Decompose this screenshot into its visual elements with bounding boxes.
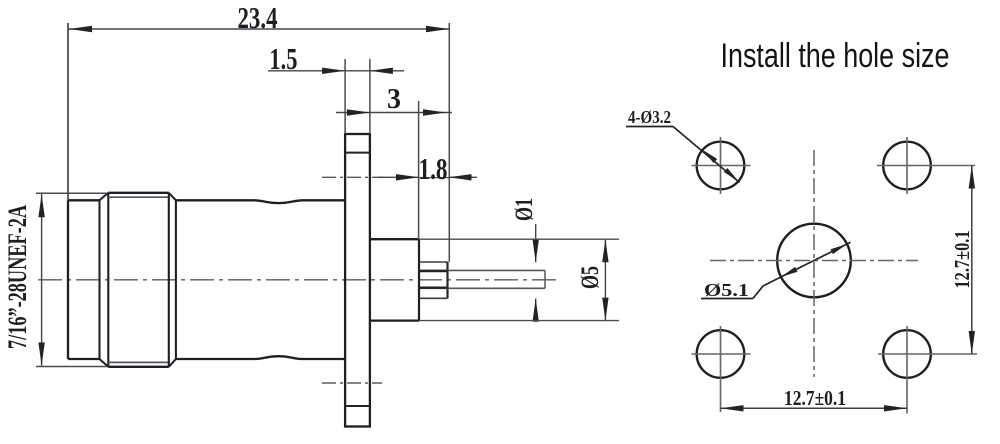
dimension 1.5 [268, 41, 404, 134]
center hole vertical centerline [813, 150, 815, 377]
svg-text:12.7±0.1: 12.7±0.1 [950, 231, 974, 289]
insulator top edge [419, 261, 448, 263]
flange corner line bottom [345, 405, 370, 407]
body front edge [175, 200, 177, 359]
hex nut right edge [168, 193, 170, 367]
center cross top-right hole [877, 165, 975, 167]
dimension 1.8 [378, 151, 477, 186]
mounting hole bottom-left [697, 330, 745, 378]
flange corner line top [345, 152, 370, 154]
svg-text:23.4: 23.4 [238, 0, 278, 35]
hex nut left edge [107, 193, 109, 367]
flange plate [345, 134, 370, 427]
rear barrel end face [418, 239, 420, 320]
svg-text:Ø5: Ø5 [577, 266, 604, 289]
dimension diameter 5 (barrel) [419, 239, 619, 320]
svg-text:3: 3 [387, 84, 401, 115]
svg-text:1.5: 1.5 [269, 41, 297, 76]
hex nut bottom edge [108, 366, 169, 368]
mounting hole top-left [697, 142, 745, 190]
hex chamfer top-left [100, 193, 109, 201]
rear barrel bottom edge [370, 319, 419, 321]
pin end face [544, 270, 546, 288]
hex chamfer bottom-right [169, 359, 176, 367]
center hole [777, 224, 851, 298]
axis centerline of connector [38, 279, 560, 281]
contact pin bottom edge [419, 287, 545, 289]
dimension 7/16-28UNEF-2A thread [3, 193, 107, 366]
svg-text:Ø1: Ø1 [511, 198, 538, 221]
contact pin top edge [419, 269, 545, 271]
hex chamfer bottom-left [100, 359, 109, 367]
threaded barrel bottom edge [68, 358, 100, 360]
dimension 3 [336, 84, 452, 239]
hex chamfer top-right [169, 193, 176, 201]
lower mounting hole centerline [322, 382, 382, 384]
svg-text:7/16”-28UNEF-2A: 7/16”-28UNEF-2A [3, 205, 32, 349]
rear barrel top edge [370, 238, 419, 240]
mounting hole bottom-right [883, 330, 931, 378]
label diameter 5.1 with leader [701, 242, 851, 300]
label 4-diameter 3.2 with leader [626, 107, 740, 183]
svg-text:4-Ø3.2: 4-Ø3.2 [628, 107, 671, 127]
dimension 12.7 bottom [721, 386, 908, 412]
dimension 12.7 right [950, 166, 975, 355]
threaded barrel top edge [68, 199, 100, 201]
connector left end face [67, 200, 69, 359]
thread relief groove line [98, 199, 100, 360]
center cross top-left hole [692, 165, 751, 167]
center hole horizontal centerline [710, 260, 918, 262]
dimension 23.4 [68, 0, 450, 262]
center cross bottom-left hole [692, 353, 751, 355]
hex flat line top [108, 196, 169, 198]
body bottom edge with crimp wave [176, 356, 345, 359]
insulator end face [446, 262, 448, 298]
insulator bottom edge [419, 297, 448, 299]
svg-text:1.8: 1.8 [419, 151, 448, 186]
center cross bottom-right hole [878, 353, 977, 355]
svg-text:12.7±0.1: 12.7±0.1 [784, 386, 846, 410]
hex flat line bottom [108, 361, 169, 363]
dimension diameter 1 (pin) [511, 198, 539, 322]
body top edge with crimp wave [176, 200, 345, 203]
mounting hole top-right [883, 142, 931, 190]
pin section dark overdraw bottom [419, 287, 448, 289]
pin section dark overdraw top [419, 270, 448, 272]
svg-text:Install the hole size: Install the hole size [721, 37, 950, 75]
svg-text:Ø5.1: Ø5.1 [704, 280, 749, 300]
upper mounting hole centerline [322, 176, 385, 178]
hex nut top edge [108, 192, 169, 194]
